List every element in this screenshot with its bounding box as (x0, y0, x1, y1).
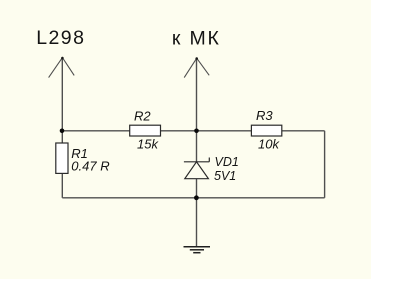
node A (60, 129, 65, 134)
svg-text:VD1: VD1 (215, 155, 239, 169)
arrow apex dot к МК (195, 57, 198, 60)
wire node B to VD1 (196, 131, 198, 162)
resistor R2 (130, 125, 161, 136)
wire к МК to node B (196, 58, 198, 131)
wire R2 to node B (161, 130, 197, 132)
wire L298 to node A (61, 58, 63, 131)
svg-text:0.47 R: 0.47 R (71, 158, 109, 173)
svg-text:5V1: 5V1 (214, 169, 236, 183)
wire VD1 to node C (196, 179, 198, 198)
svg-text:10k: 10k (258, 137, 280, 152)
resistor R1 (56, 143, 68, 173)
zener diode VD1 (184, 158, 209, 179)
svg-text:L298: L298 (36, 27, 85, 49)
wire right vertical (324, 131, 326, 198)
resistor R3 (251, 125, 281, 136)
wire R3 to right corner (282, 130, 325, 132)
svg-text:R2: R2 (134, 109, 151, 124)
wire bottom (62, 197, 324, 199)
wire node B to R3 (197, 130, 252, 132)
svg-text:к МК: к МК (172, 27, 221, 49)
node L298 arrow (49, 58, 75, 78)
svg-text:15k: 15k (137, 137, 159, 152)
wire node A to R1 (61, 131, 63, 143)
svg-text:R3: R3 (256, 108, 273, 123)
ground (184, 247, 211, 253)
wire node C to ground (196, 198, 198, 247)
arrow apex dot L298 (61, 57, 64, 60)
node C (194, 195, 199, 200)
node B (194, 129, 199, 134)
wire R1 to bottom (61, 173, 63, 197)
wire node A to R2 (62, 130, 129, 132)
node к МК arrow (184, 58, 209, 77)
